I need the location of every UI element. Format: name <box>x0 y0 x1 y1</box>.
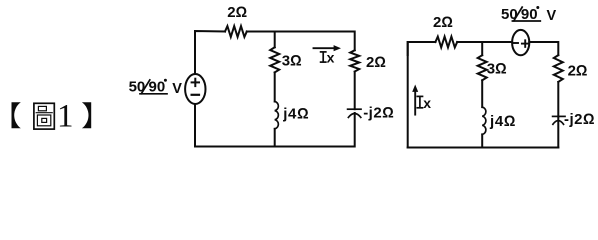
wire: right branch between resistor and capacitor <box>354 72 356 110</box>
wire: top middle segment <box>457 41 512 43</box>
圖 middle horizontal stroke <box>36 112 52 114</box>
svg-text:2Ω: 2Ω <box>433 14 453 31</box>
svg-text:x: x <box>327 49 335 65</box>
wire: middle branch between resistor and inductor (right circuit) <box>481 80 483 107</box>
capacitor -j2Ω top plate (left circuit) <box>348 108 361 110</box>
wire: top segment to right corner <box>247 32 355 51</box>
voltage source V (left circuit) <box>185 74 205 104</box>
source plus sign (right circuit) <box>522 40 529 47</box>
resistor 2Ω (top, right circuit) <box>435 37 457 48</box>
wire: left side down (right circuit) <box>407 42 409 148</box>
wire: bottom segment (right circuit) <box>408 147 559 149</box>
angle underline of 50∠90° <box>140 93 167 95</box>
label Ix (right circuit) <box>417 96 422 107</box>
wire: below source to bottom-left corner <box>195 104 275 147</box>
svg-text:3Ω: 3Ω <box>282 53 302 70</box>
svg-text:-j2Ω: -j2Ω <box>564 111 595 128</box>
figure label 】 right lens bracket <box>82 102 91 128</box>
svg-text:2Ω: 2Ω <box>227 4 247 21</box>
node: middle branch junction (top) <box>274 32 276 48</box>
wire: middle branch below inductor <box>274 129 276 147</box>
figure label character 圖 outer box <box>34 103 54 129</box>
wire: right branch between resistor and capacitor (right circuit) <box>557 82 559 116</box>
capacitor -j2Ω curved plate (right circuit) <box>553 121 564 125</box>
angle slash of 50∠90° <box>141 80 149 94</box>
svg-text:2Ω: 2Ω <box>366 54 386 71</box>
label 50∠90° V (right circuit) <box>501 6 557 24</box>
node: middle branch junction (right circuit) <box>481 42 483 55</box>
inductor j4Ω (right circuit) <box>482 107 486 134</box>
wire: top-left segment <box>195 31 225 74</box>
label Ix (left circuit) <box>321 52 326 62</box>
resistor 3Ω (middle branch, right circuit) <box>478 55 487 80</box>
svg-text:V: V <box>172 81 182 97</box>
source minus sign (right circuit) <box>513 42 518 44</box>
svg-text:1: 1 <box>57 98 74 134</box>
wire: bottom segment right half <box>275 113 355 147</box>
svg-text:x: x <box>423 95 431 111</box>
圖 inner bottom box (回 outer) <box>37 115 50 126</box>
svg-text:3Ω: 3Ω <box>487 61 507 78</box>
wire: right branch below capacitor (right circuit) <box>557 118 559 148</box>
svg-text:j4Ω: j4Ω <box>489 113 516 130</box>
resistor 2Ω (top, left circuit) <box>225 26 247 37</box>
resistor 3Ω (middle branch, left circuit) <box>270 47 279 72</box>
source minus sign <box>192 94 199 96</box>
voltage source V (right circuit) <box>512 30 529 55</box>
圖 inner bottom box (回 inner) <box>42 118 47 122</box>
figure label 【圖 1】 left lens bracket <box>12 102 21 128</box>
inductor j4Ω (left circuit) <box>275 102 279 129</box>
source plus sign <box>192 79 199 86</box>
wire: top-left segment (right circuit) <box>408 42 436 55</box>
圖 inner top small box <box>38 106 46 110</box>
current arrow Ix (left circuit) <box>314 47 335 49</box>
svg-text:V: V <box>547 8 557 24</box>
svg-text:-j2Ω: -j2Ω <box>363 105 394 122</box>
resistor 2Ω (right branch, left circuit) <box>350 50 359 71</box>
svg-text:j4Ω: j4Ω <box>282 106 309 123</box>
angle underline of 50∠90° (right circuit) <box>512 20 540 22</box>
svg-text:2Ω: 2Ω <box>568 63 588 80</box>
angle slash of 50∠90° (right circuit) <box>514 7 522 21</box>
wire: middle branch between resistor and inductor <box>274 72 276 101</box>
current arrow Ix (right circuit) <box>414 92 416 115</box>
resistor 2Ω (right branch, right circuit) <box>554 55 563 82</box>
wire: middle branch below inductor (right circuit) <box>481 134 483 147</box>
wire: top-right corner down (right circuit) <box>529 42 558 55</box>
label 50∠90° V (left circuit) <box>129 79 183 98</box>
capacitor -j2Ω curved plate (left circuit) <box>348 114 360 118</box>
capacitor -j2Ω top plate (right circuit) <box>553 115 565 117</box>
